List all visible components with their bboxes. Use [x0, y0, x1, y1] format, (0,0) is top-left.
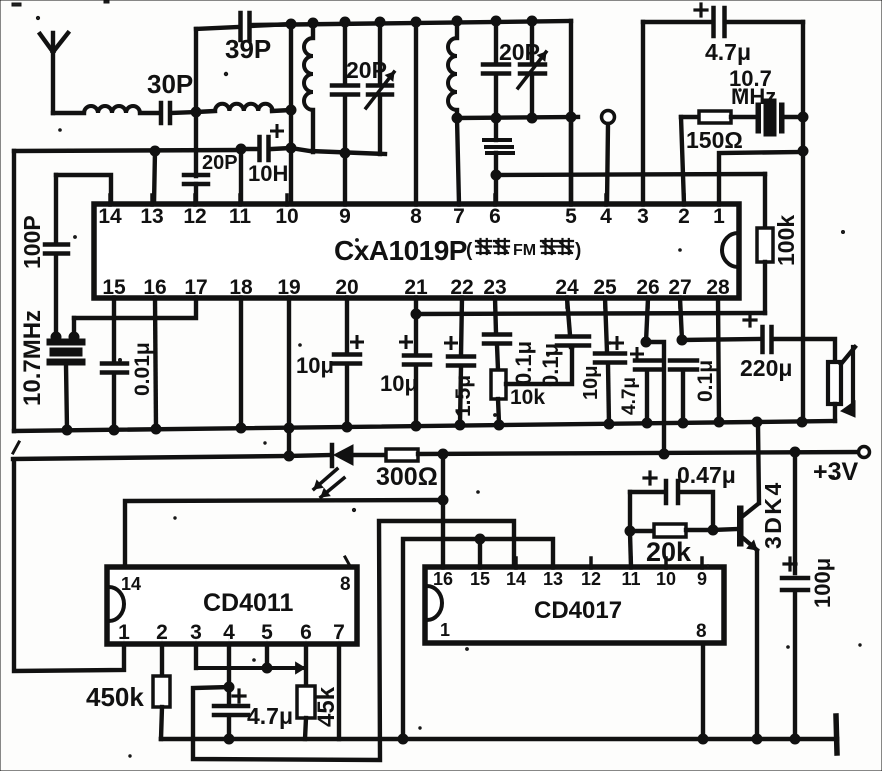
- wire: [645, 371, 649, 423]
- wire pin3-link: [194, 644, 198, 668]
- pin 20 U1: [335, 276, 358, 307]
- pin 6 U1: [489, 195, 501, 228]
- svg-text:10k: 10k: [510, 386, 545, 409]
- label +: [632, 349, 643, 360]
- wire: [506, 347, 572, 384]
- svg-text:13: 13: [543, 569, 563, 589]
- wire emitter: [755, 551, 759, 739]
- wire pin15-stub: [478, 539, 482, 567]
- op-amp U1 CXA1019P body: [94, 204, 739, 298]
- wire: [494, 153, 498, 204]
- wire: [630, 490, 665, 494]
- svg-text:22: 22: [450, 276, 473, 299]
- svg-text:19: 19: [277, 276, 300, 299]
- wire pin7: [457, 118, 459, 204]
- pin 1 U1: [713, 195, 725, 228]
- notch U1: [722, 233, 738, 267]
- wire pin2: [160, 644, 164, 676]
- wire pin7: [337, 644, 341, 739]
- wire pin24: [567, 298, 570, 335]
- svg-text:24: 24: [555, 276, 579, 299]
- capacitor 39P: [241, 13, 250, 40]
- wire pin1 feedback: [719, 152, 803, 204]
- wire 100u-drop: [793, 452, 797, 573]
- pin 2 U2: [156, 621, 168, 645]
- node: [677, 335, 687, 345]
- svg-text:0.1μ: 0.1μ: [694, 360, 717, 402]
- node rail1: [411, 421, 421, 431]
- pin 21 U1: [404, 276, 428, 307]
- notch U2: [109, 587, 124, 621]
- wire: [497, 345, 498, 370]
- wire: [772, 339, 835, 363]
- pin 11 U1: [229, 195, 252, 228]
- node rail1: [342, 422, 352, 432]
- wire: [494, 118, 498, 140]
- svg-text:10H: 10H: [248, 161, 288, 186]
- svg-text:25: 25: [593, 276, 617, 299]
- pin 13 U3: [543, 558, 563, 589]
- svg-text:23: 23: [483, 276, 506, 299]
- node: [641, 337, 651, 347]
- node: [69, 332, 79, 342]
- node: [452, 16, 462, 26]
- pin 22 U1: [450, 276, 473, 307]
- svg-text:CD4011: CD4011: [203, 589, 293, 617]
- wire rail2-right: [418, 452, 864, 454]
- svg-text:14: 14: [121, 574, 141, 594]
- pin 4 U2: [223, 621, 235, 645]
- svg-text:18: 18: [229, 276, 253, 299]
- wire rail1: [14, 421, 835, 431]
- svg-text:14: 14: [98, 205, 122, 228]
- node: [236, 144, 246, 154]
- node: [698, 734, 708, 744]
- wire pin21: [414, 298, 418, 354]
- wire: [494, 76, 498, 118]
- svg-text:10μ: 10μ: [380, 371, 418, 396]
- wire pin12: [194, 184, 198, 204]
- resistor 450k: [153, 676, 170, 707]
- wire pin15: [112, 298, 116, 363]
- node: [284, 451, 294, 461]
- svg-text:CD4017: CD4017: [534, 597, 622, 624]
- wire: [630, 529, 654, 533]
- svg-text:4.7μ: 4.7μ: [705, 39, 751, 65]
- wire: [679, 492, 713, 530]
- wire clock-link: [193, 521, 514, 760]
- wire pin8: [414, 22, 418, 204]
- node L2-right: [286, 105, 296, 115]
- pin 5 U2: [261, 621, 273, 645]
- node: [375, 17, 385, 27]
- svg-text:450k: 450k: [86, 682, 144, 712]
- svg-text:2: 2: [678, 205, 690, 228]
- svg-text:9: 9: [697, 569, 707, 589]
- svg-text:0.01μ: 0.01μ: [131, 342, 154, 396]
- led indicator: [332, 445, 353, 466]
- svg-text:30P: 30P: [147, 69, 193, 99]
- svg-text:6: 6: [300, 621, 312, 644]
- node: [625, 526, 635, 536]
- svg-text:100k: 100k: [773, 215, 799, 266]
- node rail1: [714, 417, 724, 427]
- wire pin9: [343, 96, 347, 204]
- pin 26 U1: [636, 276, 659, 307]
- wire: [272, 148, 291, 149]
- label +: [784, 558, 796, 570]
- node test-point: [602, 111, 615, 124]
- mark tick2: [345, 557, 350, 566]
- svg-text:2: 2: [156, 621, 168, 644]
- pin 14 U3: [506, 558, 526, 589]
- wire left-border: [12, 151, 16, 431]
- wire: [194, 29, 198, 112]
- svg-text:12: 12: [581, 569, 601, 589]
- wire: [343, 22, 347, 84]
- capacitor 10u pin25: [595, 354, 625, 363]
- capacitor 30P: [161, 103, 170, 123]
- wire: [289, 455, 331, 456]
- svg-text:14: 14: [506, 569, 526, 589]
- svg-text:15: 15: [102, 276, 126, 299]
- svg-text:0.1μ: 0.1μ: [538, 343, 563, 387]
- wire: [241, 147, 256, 151]
- wire: [793, 592, 797, 739]
- wire: [833, 404, 837, 421]
- pin 19 U1: [277, 276, 300, 307]
- svg-text:4: 4: [600, 205, 612, 228]
- wire pin18: [239, 298, 243, 428]
- wire: [763, 262, 767, 313]
- capacitor 10H electrolytic: [260, 137, 269, 160]
- wire AGC y175: [496, 174, 765, 175]
- pin 24 U1: [555, 276, 579, 307]
- node rail1: [236, 423, 246, 433]
- wire rail2-left: [13, 456, 289, 459]
- wire top-rail-end: [569, 21, 573, 204]
- wire pin3: [641, 22, 645, 204]
- capacitor 4.7u: [714, 8, 725, 36]
- svg-text:1.5μ: 1.5μ: [452, 375, 475, 417]
- pin 3 U1: [637, 195, 649, 228]
- svg-text:220μ: 220μ: [740, 355, 792, 381]
- wire: [305, 718, 306, 739]
- node: [527, 113, 537, 123]
- svg-text:20: 20: [335, 276, 358, 299]
- node rail1: [678, 418, 688, 428]
- wire: [54, 255, 58, 337]
- wire: [727, 20, 803, 24]
- svg-text:12: 12: [183, 205, 206, 228]
- pin 16 U1: [143, 276, 166, 307]
- svg-text:20P: 20P: [499, 39, 540, 65]
- svg-text:4: 4: [223, 621, 235, 644]
- node: [790, 447, 800, 457]
- svg-text:150Ω: 150Ω: [686, 127, 743, 153]
- wire: [161, 707, 162, 739]
- svg-text:0.47μ: 0.47μ: [677, 462, 736, 488]
- wire: [643, 20, 711, 24]
- trimmer capacitor tank2 20P: [518, 21, 546, 118]
- pin 10 U1: [275, 195, 298, 228]
- capacitor 20P: [184, 175, 208, 184]
- trimmer capacitor tank1 20P: [366, 22, 394, 154]
- wire right-column: [801, 22, 805, 423]
- pin 1 U2: [118, 621, 130, 645]
- svg-text:0.1μ: 0.1μ: [511, 341, 536, 385]
- node: [224, 682, 234, 692]
- wire: [53, 111, 84, 115]
- wire: [460, 367, 461, 424]
- resistor 10k: [491, 370, 506, 399]
- label +: [272, 126, 283, 137]
- transistor Q1 3DK4: [738, 504, 759, 550]
- capacitor 4.7u pin26: [635, 361, 660, 370]
- pin 25 U1: [593, 276, 617, 307]
- node antenna-junction: [191, 107, 201, 117]
- svg-text:16: 16: [433, 569, 453, 589]
- wire bottom-bus: [161, 737, 837, 742]
- capacitor 0.1u pin23: [484, 335, 510, 344]
- label +: [744, 314, 756, 326]
- svg-text:13: 13: [140, 205, 163, 228]
- node rail1: [752, 417, 762, 427]
- node rail1: [62, 425, 72, 435]
- node: [150, 146, 160, 156]
- wire: [353, 453, 386, 457]
- capacitor 100u: [782, 578, 808, 590]
- node: [790, 734, 800, 744]
- wire: [291, 148, 385, 154]
- svg-text:3: 3: [190, 621, 202, 644]
- svg-text:10μ: 10μ: [296, 353, 334, 378]
- node rail1: [494, 420, 504, 430]
- wire: [66, 365, 67, 429]
- resistor 300ohm: [386, 449, 418, 461]
- node: [340, 17, 350, 27]
- capacitor 10u pin21: [404, 356, 430, 365]
- node: [438, 495, 448, 505]
- svg-text:4.7μ: 4.7μ: [619, 377, 640, 415]
- capacitor 10u pin20: [334, 355, 360, 364]
- capacitor 220u: [763, 327, 772, 352]
- wire collector: [758, 425, 759, 503]
- crystal filter 10.7MHz: [756, 99, 784, 136]
- pin 10 U3: [656, 558, 676, 589]
- pin 3 U2: [190, 621, 202, 645]
- pin 4 U1: [600, 195, 612, 228]
- wire: [227, 716, 231, 739]
- wire pin10 column: [289, 24, 293, 204]
- resistor 20k: [654, 524, 686, 537]
- wire: [494, 21, 498, 62]
- capacitor 0.1u pin27: [670, 361, 697, 370]
- wire vdd-to-4011: [125, 500, 443, 567]
- node: [659, 449, 669, 459]
- wire pin4: [227, 644, 231, 705]
- terminal +3V: [859, 447, 870, 458]
- svg-text:20k: 20k: [646, 537, 692, 567]
- svg-text:10μ: 10μ: [580, 366, 602, 400]
- wire pin6: [304, 644, 308, 686]
- pin 14 U1: [98, 195, 122, 228]
- node: [284, 423, 294, 433]
- svg-text:26: 26: [636, 276, 659, 299]
- wire: [608, 364, 609, 425]
- node: [527, 16, 537, 26]
- node: [491, 113, 501, 123]
- resistor 100k: [757, 228, 773, 262]
- svg-text:100P: 100P: [19, 215, 45, 269]
- wire: [763, 174, 767, 228]
- svg-text:5: 5: [261, 621, 273, 644]
- notch U3: [427, 586, 442, 620]
- svg-text:9: 9: [339, 205, 351, 228]
- svg-text:10: 10: [275, 205, 298, 228]
- wire pin11: [239, 149, 243, 204]
- svg-text:FM: FM: [513, 242, 536, 259]
- capacitor 0.47u: [666, 481, 678, 503]
- node: [286, 19, 296, 29]
- pin 16 U3: [433, 558, 453, 589]
- svg-text:10.7MHz: 10.7MHz: [19, 310, 46, 406]
- svg-text:8: 8: [410, 205, 422, 228]
- wire pin2: [681, 117, 684, 204]
- capacitor tank1: [332, 86, 358, 95]
- svg-text:): ): [575, 240, 581, 261]
- wire: [194, 112, 198, 176]
- svg-text:10: 10: [656, 569, 676, 589]
- svg-text:(: (: [466, 240, 473, 261]
- svg-text:3: 3: [637, 205, 649, 228]
- wire pin22: [461, 298, 462, 355]
- node: [224, 734, 234, 744]
- label +: [695, 4, 707, 16]
- svg-text:11: 11: [621, 569, 640, 589]
- mark tick: [13, 442, 19, 453]
- svg-text:8: 8: [696, 621, 707, 642]
- inductor tank1: [304, 23, 313, 152]
- wire tank2-bottom: [457, 117, 578, 118]
- label +: [233, 690, 245, 702]
- capacitor 4.7u osc: [214, 706, 248, 715]
- svg-text:27: 27: [668, 276, 691, 299]
- wire: [686, 528, 713, 532]
- speaker: [828, 347, 855, 417]
- node: [752, 734, 762, 744]
- svg-text:15: 15: [470, 569, 490, 589]
- svg-text:11: 11: [229, 205, 252, 228]
- wire pin25: [605, 298, 607, 352]
- wire pin4: [607, 124, 608, 204]
- label +: [401, 337, 412, 348]
- svg-text:45k: 45k: [313, 686, 340, 727]
- wire pin11-drop: [630, 533, 631, 567]
- wire pin23: [495, 298, 496, 333]
- resistor 45k: [297, 686, 315, 718]
- svg-text:20P: 20P: [346, 57, 387, 83]
- crystal 10.7MHz discriminator: [47, 339, 85, 365]
- capacitor pin6: [484, 140, 513, 153]
- wire: [345, 365, 349, 427]
- wire: [681, 115, 699, 119]
- svg-text:4.7μ: 4.7μ: [247, 703, 293, 729]
- capacitor 0.01u: [102, 364, 127, 373]
- wire: [140, 111, 159, 115]
- svg-text:300Ω: 300Ω: [376, 463, 438, 491]
- wire pin5-stub: [265, 644, 269, 668]
- svg-text:39P: 39P: [225, 34, 271, 64]
- svg-text:8: 8: [340, 574, 351, 595]
- wire pin20: [345, 298, 349, 353]
- wire: [196, 111, 215, 112]
- wire top-rail: [253, 21, 571, 25]
- node rail1: [604, 419, 614, 429]
- wire: [414, 366, 418, 426]
- pin 15 U3: [470, 558, 490, 589]
- node rail1: [642, 418, 652, 428]
- node: [398, 734, 408, 744]
- terminal battery-minus: [836, 716, 837, 753]
- wire: [784, 115, 803, 119]
- wire pin28: [718, 298, 719, 423]
- pin 11 U3: [621, 558, 640, 589]
- node: [491, 170, 501, 180]
- pin 2 U1: [678, 195, 690, 228]
- wire: [251, 24, 291, 26]
- wire: [498, 399, 499, 423]
- node rail1: [797, 417, 807, 427]
- wire pin16: [155, 298, 156, 429]
- wire pin19: [287, 298, 291, 456]
- svg-text:21: 21: [404, 276, 428, 299]
- svg-text:1: 1: [713, 205, 725, 228]
- pin 28 U1: [706, 276, 730, 307]
- node: [340, 148, 350, 158]
- wire left-rail: [14, 150, 241, 151]
- node rail1: [151, 424, 161, 434]
- antenna: [40, 33, 68, 113]
- node: [708, 525, 718, 535]
- capacitor 1.5u: [448, 357, 474, 366]
- wire pin13: [154, 151, 155, 204]
- wire pin8-gnd: [701, 643, 705, 739]
- svg-text:7: 7: [453, 205, 465, 228]
- op-amp U2 CD4011 body: [107, 567, 357, 644]
- label +: [644, 472, 656, 484]
- pin 7 U2: [333, 621, 345, 645]
- svg-text:16: 16: [143, 276, 166, 299]
- wire pin1-gnd: [14, 460, 124, 671]
- pin 12 U1: [183, 195, 206, 228]
- node: [491, 16, 501, 26]
- wire base: [713, 529, 737, 530]
- inductor L1: [84, 106, 140, 113]
- node: [51, 332, 61, 342]
- label U1 mode: [466, 239, 581, 261]
- wire pin26: [646, 298, 648, 342]
- node: [308, 18, 318, 28]
- node rail1: [109, 425, 119, 435]
- wire det y313: [416, 313, 765, 314]
- wire: [72, 318, 76, 337]
- wire reset-link: [403, 539, 553, 739]
- svg-text:MHz: MHz: [731, 84, 776, 109]
- wire: [681, 371, 685, 423]
- wire: [196, 662, 305, 673]
- pin 23 U1: [483, 276, 506, 307]
